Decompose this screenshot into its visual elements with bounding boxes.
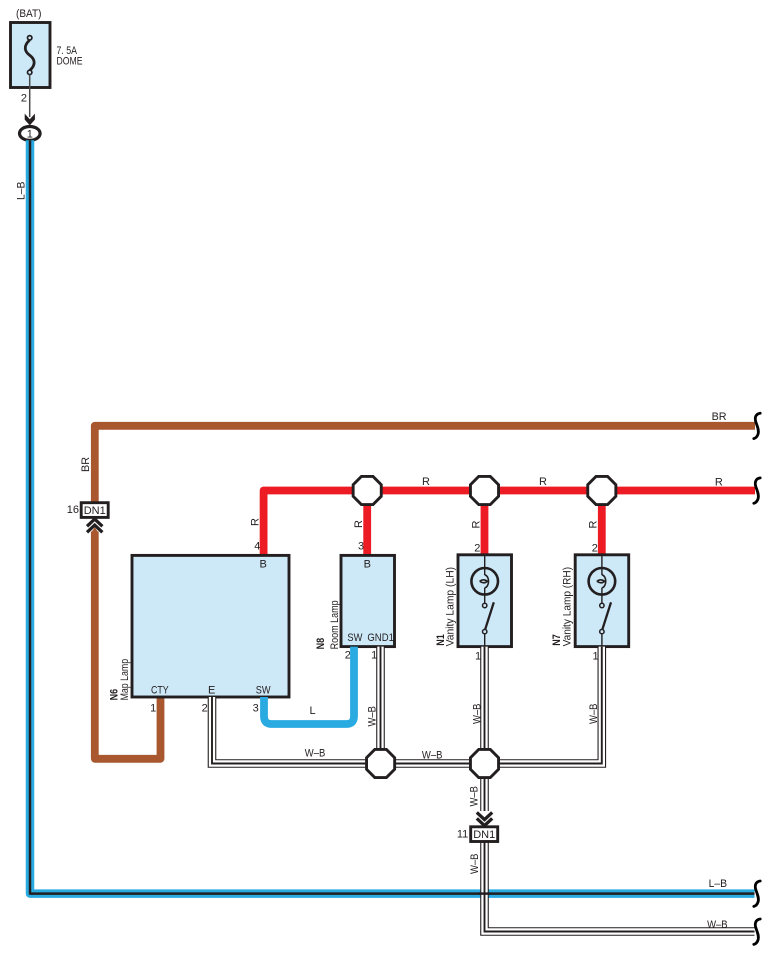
svg-text:Map Lamp: Map Lamp [119,659,131,701]
svg-text:Room Lamp: Room Lamp [329,600,341,649]
fuse element symbol [25,36,34,75]
svg-text:DN1: DN1 [84,505,106,517]
svg-text:3: 3 [253,703,259,715]
svg-text:11: 11 [457,828,468,840]
bulb and switch inside N1 [471,555,498,647]
redraw L-B black stripe across W-B crossing [479,892,491,895]
svg-text:W–B: W–B [367,706,379,727]
wire L-B vertical then horizontal to right edge [30,140,755,893]
double chevron up below DN1 [87,519,102,532]
svg-text:L: L [310,705,316,717]
break symbol on R wire [754,478,760,503]
arrow into connector 1 [25,114,35,126]
svg-text:2: 2 [21,92,27,104]
junction tick below DN1 box [94,517,96,520]
fuse F1 7.5A DOME box [11,23,51,88]
svg-text:BR: BR [80,457,92,472]
svg-text:W–B: W–B [422,750,443,762]
svg-text:W–B: W–B [472,704,484,725]
break symbol on L-B wire [754,881,760,906]
wire W-B from DN1 (lower) down then right to edge [485,842,755,932]
svg-text:3: 3 [358,540,364,552]
svg-text:1: 1 [27,128,33,140]
svg-text:R: R [250,518,262,526]
svg-text:R: R [588,521,600,529]
break symbol on BR wire [754,413,760,438]
component N1 Vanity Lamp (LH) box [458,555,512,647]
svg-text:SW: SW [347,632,363,644]
svg-text:N8: N8 [315,638,327,650]
double chevron down above DN1 (lower) [477,812,492,825]
svg-text:(BAT): (BAT) [16,8,42,20]
junction octagon on ground bus below N1 [470,749,498,777]
svg-text:2: 2 [592,543,598,555]
component N6 Map Lamp box [132,555,289,697]
svg-text:R: R [715,476,723,488]
component N7 Vanity Lamp (RH) box [575,555,629,647]
break symbol on W-B wire [754,919,760,944]
svg-text:R: R [470,521,482,529]
connector DN1 (lower) box [471,827,498,842]
wire BR from below DN1 chevron down, right to N6 pin 1 [91,527,99,533]
svg-text:DOME: DOME [57,56,83,68]
junction octagon on R line above N7 [588,476,616,504]
wire W-B from bus down to chevron at DN1 (lower) [480,764,489,812]
junction octagon on ground bus below N8 [367,749,395,777]
wire R drop to N8 pin 3 [363,491,371,556]
svg-text:E: E [208,685,215,697]
svg-text:2: 2 [474,543,480,555]
svg-text:B: B [260,558,267,570]
component N8 Room Lamp box [341,555,395,646]
wire L from N6 pin 3 to N8 pin 2 [264,647,354,724]
svg-text:W–B: W–B [305,748,326,760]
bulb and switch inside N7 [589,555,616,647]
wire BR from DN1 up and right to edge [95,426,755,503]
connector DN1 (upper) box [81,503,108,518]
svg-text:L–B: L–B [709,878,728,890]
svg-text:2: 2 [202,703,208,715]
svg-text:W–B: W–B [588,704,600,725]
svg-text:B: B [364,558,371,570]
svg-text:W–B: W–B [469,786,481,807]
svg-text:W–B: W–B [469,854,481,875]
wire R main horizontal with corner down to N6 pin 4 [264,491,755,556]
svg-text:GND1: GND1 [367,632,394,644]
wire from fuse pin 2 down to connector 1 [29,75,31,118]
svg-text:Vanity Lamp (LH): Vanity Lamp (LH) [444,567,456,647]
svg-text:CTY: CTY [151,685,169,697]
junction octagon on R line above N8 [353,476,381,504]
svg-text:16: 16 [67,504,79,516]
svg-text:4: 4 [254,541,260,553]
wire R drop to N1 pin 2 [481,491,489,555]
svg-text:R: R [353,520,365,528]
wire W-B from N1 pin 1 down to bus [480,647,489,764]
svg-text:L–B: L–B [15,182,27,201]
wire W-B ground bus: N6 pin 2 down, right along bus, up to N7 pin 1 [212,647,602,764]
svg-text:DN1: DN1 [473,829,495,841]
svg-text:1: 1 [150,703,156,715]
svg-text:SW: SW [256,685,271,697]
junction octagon on R line above N1 [470,476,498,504]
svg-text:BR: BR [712,411,727,423]
svg-text:2: 2 [345,650,351,662]
wire R drop to N7 pin 2 [598,491,606,555]
svg-text:Vanity Lamp (RH): Vanity Lamp (RH) [561,567,573,647]
svg-text:W–B: W–B [707,919,728,931]
wire W-B from N8 GND1 pin 1 down to bus [376,647,385,764]
connector node 1 (ellipse) [20,126,41,140]
svg-text:R: R [422,476,430,488]
svg-text:R: R [539,476,547,488]
